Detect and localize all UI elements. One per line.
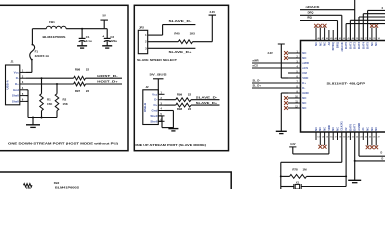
- svg-text:46: 46: [326, 37, 328, 40]
- svg-text:R98: R98: [75, 68, 81, 72]
- svg-text:3216FF-1A: 3216FF-1A: [35, 54, 50, 58]
- svg-text:nCS: nCS: [253, 64, 259, 68]
- svg-text:47: 47: [322, 37, 324, 40]
- svg-text:220u: 220u: [110, 39, 117, 43]
- svg-text:48: 48: [317, 37, 319, 40]
- svg-text:27: 27: [378, 137, 380, 139]
- svg-text:1K5: 1K5: [190, 31, 196, 35]
- svg-text:nDACK: nDACK: [340, 42, 344, 51]
- svg-text:BLM41P600S: BLM41P600S: [43, 35, 66, 39]
- svg-text:NC: NC: [314, 42, 318, 46]
- svg-text:41: 41: [348, 37, 350, 40]
- svg-text:NC: NC: [318, 127, 322, 131]
- svg-text:DAT2: DAT2: [353, 42, 357, 49]
- svg-text:NC: NC: [366, 127, 370, 131]
- svg-text:Shell: Shell: [12, 94, 19, 98]
- svg-text:ONE UP-STREAM PORT (SLAVE MODE: ONE UP-STREAM PORT (SLAVE MODE): [134, 143, 206, 147]
- svg-text:NC: NC: [302, 56, 306, 60]
- svg-text:SL_D-: SL_D-: [253, 78, 261, 82]
- svg-text:15: 15: [326, 137, 328, 139]
- svg-text:NC: NC: [302, 106, 306, 110]
- svg-text:22: 22: [188, 107, 192, 111]
- svg-text:25: 25: [369, 137, 371, 139]
- svg-text:USB-B: USB-B: [143, 103, 147, 112]
- svg-text:NC: NC: [314, 127, 318, 131]
- svg-text:Vcc: Vcc: [152, 92, 158, 96]
- svg-text:1M: 1M: [302, 167, 307, 171]
- svg-text:X1: X1: [296, 180, 300, 184]
- svg-text:22: 22: [86, 89, 90, 93]
- svg-text:SLAVE_D+: SLAVE_D+: [169, 50, 192, 54]
- svg-text:D+: D+: [15, 82, 19, 86]
- svg-text:DAT5: DAT5: [366, 42, 370, 49]
- svg-text:IRQ: IRQ: [307, 16, 312, 20]
- svg-text:35: 35: [373, 38, 375, 40]
- svg-text:NC: NC: [323, 42, 327, 46]
- svg-text:3.3V: 3.3V: [210, 10, 216, 14]
- svg-text:D+: D+: [154, 103, 158, 107]
- svg-text:45: 45: [330, 37, 332, 40]
- svg-text:AGND: AGND: [357, 123, 361, 131]
- svg-text:20: 20: [348, 137, 350, 139]
- svg-text:NC: NC: [331, 127, 335, 131]
- svg-text:5V: 5V: [103, 14, 106, 18]
- svg-text:Gnd: Gnd: [152, 109, 158, 113]
- svg-text:36: 36: [369, 38, 371, 40]
- svg-text:Shell: Shell: [12, 99, 19, 103]
- svg-text:0.1u: 0.1u: [86, 39, 92, 43]
- svg-text:DAT6: DAT6: [348, 123, 352, 130]
- svg-text:NC: NC: [370, 127, 374, 131]
- svg-text:3.3V: 3.3V: [267, 51, 273, 55]
- svg-text:NC: NC: [370, 42, 374, 46]
- svg-text:15K: 15K: [26, 186, 31, 189]
- svg-text:38: 38: [360, 38, 362, 40]
- svg-text:INTRQ: INTRQ: [331, 42, 335, 50]
- svg-text:SL811HST- 48LQFP: SL811HST- 48LQFP: [327, 81, 366, 85]
- svg-text:NC: NC: [374, 42, 378, 46]
- svg-text:D-: D-: [16, 76, 19, 80]
- svg-text:18: 18: [339, 137, 341, 139]
- svg-text:A1: A1: [361, 127, 365, 131]
- svg-text:DAT3: DAT3: [357, 42, 361, 49]
- svg-text:D-: D-: [302, 86, 305, 90]
- svg-text:3.3V: 3.3V: [290, 142, 296, 146]
- svg-text:Shell: Shell: [150, 119, 157, 123]
- svg-text:R97: R97: [75, 89, 81, 93]
- svg-text:R98: R98: [177, 107, 183, 111]
- svg-text:5V_BUS: 5V_BUS: [150, 72, 167, 76]
- svg-text:X2: X2: [344, 127, 348, 131]
- svg-text:NC: NC: [318, 42, 322, 46]
- svg-text:22: 22: [86, 68, 90, 72]
- svg-text:CM: CM: [302, 71, 307, 75]
- svg-text:NC: NC: [323, 127, 327, 131]
- svg-text:43: 43: [339, 37, 341, 40]
- svg-text:D+: D+: [302, 81, 306, 85]
- svg-text:23: 23: [360, 137, 362, 139]
- svg-text:A0: A0: [327, 41, 331, 45]
- svg-text:22: 22: [356, 137, 358, 139]
- svg-text:SLAVE_D-: SLAVE_D-: [196, 96, 218, 100]
- svg-text:NC: NC: [302, 96, 306, 100]
- svg-text:40: 40: [352, 37, 354, 40]
- svg-text:19: 19: [343, 137, 345, 139]
- svg-text:NC: NC: [335, 127, 339, 131]
- svg-text:+: +: [102, 35, 104, 39]
- svg-text:GND: GND: [302, 91, 308, 95]
- svg-text:VDD: VDD: [302, 76, 308, 80]
- svg-text:SLAVE SPEED SELECT: SLAVE SPEED SELECT: [137, 58, 177, 62]
- svg-text:NC: NC: [302, 51, 306, 55]
- svg-text:DRQ: DRQ: [335, 42, 339, 48]
- svg-text:J2: J2: [145, 85, 149, 89]
- svg-text:VDD: VDD: [327, 125, 331, 131]
- svg-text:R40: R40: [174, 31, 180, 35]
- svg-text:ONE DOWN-STREAM PORT (HOST MOD: ONE DOWN-STREAM PORT (HOST MODE without …: [8, 142, 118, 146]
- svg-text:HOST_D+: HOST_D+: [97, 79, 118, 83]
- svg-text:NC: NC: [302, 101, 306, 105]
- svg-text:15K: 15K: [63, 102, 69, 106]
- svg-text:FB2: FB2: [54, 181, 60, 185]
- svg-text:SL_D+: SL_D+: [253, 84, 262, 88]
- svg-text:17: 17: [335, 137, 337, 139]
- svg-text:nCS: nCS: [302, 66, 308, 70]
- svg-text:13: 13: [317, 137, 319, 139]
- svg-text:37: 37: [365, 38, 367, 40]
- svg-text:Shell: Shell: [150, 114, 157, 118]
- svg-text:BLM41P600S: BLM41P600S: [55, 186, 79, 189]
- svg-text:JP2: JP2: [139, 26, 144, 30]
- svg-text:DAT0: DAT0: [344, 42, 348, 49]
- svg-text:Vcc: Vcc: [14, 70, 20, 74]
- svg-text:D: D: [381, 152, 383, 155]
- svg-text:DRQ: DRQ: [308, 10, 314, 14]
- svg-text:DAT7: DAT7: [353, 123, 357, 130]
- svg-text:USB-A: USB-A: [6, 79, 10, 89]
- svg-text:nWR: nWR: [302, 61, 308, 65]
- svg-text:39: 39: [356, 38, 358, 40]
- svg-text:R99: R99: [177, 92, 183, 96]
- svg-text:26: 26: [373, 137, 375, 139]
- svg-text:DAT4: DAT4: [361, 42, 365, 49]
- svg-text:D: D: [382, 157, 384, 160]
- svg-text:SLAVE_D+: SLAVE_D+: [196, 101, 218, 105]
- svg-text:nWR: nWR: [253, 58, 259, 62]
- svg-text:HOST_D-: HOST_D-: [97, 74, 118, 78]
- svg-text:D-: D-: [154, 98, 157, 102]
- svg-text:J1: J1: [10, 60, 14, 64]
- svg-text:nDACK: nDACK: [306, 5, 320, 9]
- svg-text:NC: NC: [374, 127, 378, 131]
- svg-text:21: 21: [352, 137, 354, 139]
- svg-text:Gnd: Gnd: [13, 88, 19, 92]
- svg-text:DAT1: DAT1: [348, 42, 352, 49]
- svg-text:16: 16: [330, 137, 332, 139]
- svg-text:CLK/X1: CLK/X1: [340, 121, 344, 131]
- svg-text:F1: F1: [35, 49, 39, 53]
- svg-text:FB1: FB1: [49, 20, 55, 24]
- svg-text:22: 22: [188, 92, 192, 96]
- svg-text:SLAVE_D-: SLAVE_D-: [169, 19, 192, 23]
- svg-text:R78: R78: [292, 167, 298, 171]
- svg-text:42: 42: [343, 37, 345, 40]
- svg-text:15K: 15K: [47, 102, 53, 106]
